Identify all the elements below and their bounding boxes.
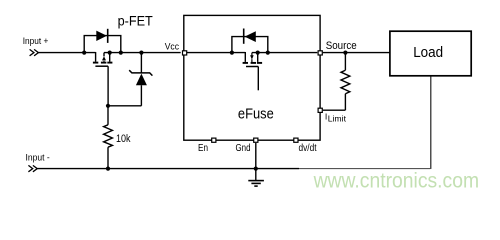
svg-text:Input -: Input -: [26, 152, 50, 162]
pin Vcc: [183, 51, 187, 55]
diode D3 body diode of Q2: [232, 29, 268, 53]
svg-text:Limit: Limit: [328, 113, 347, 123]
block Load: [390, 31, 471, 76]
svg-text:eFuse: eFuse: [238, 107, 274, 123]
wire Gnd pin to rail: [255, 143, 257, 169]
junction dot: [108, 51, 112, 55]
resistor R2 ILIM setting: [323, 53, 350, 111]
svg-text:En: En: [198, 143, 208, 154]
pin dv/dt: [294, 138, 298, 142]
ground: [248, 169, 264, 187]
svg-text:Input +: Input +: [23, 36, 49, 46]
input terminal Input- chevrons: [28, 165, 37, 171]
wire zener anode to gate node: [108, 105, 141, 107]
junction dot R1 to rail: [106, 167, 110, 171]
wire Q2 gate stub: [257, 67, 259, 91]
Q1 body arrow: [102, 56, 106, 62]
pin ILIM: [318, 108, 322, 112]
input terminal Input+ chevrons: [30, 49, 39, 55]
svg-text:Gnd: Gnd: [236, 143, 251, 154]
wire rail to Load corner (gray): [299, 168, 430, 170]
junction dot: [256, 51, 260, 55]
junction dot Gnd rail: [254, 167, 258, 171]
svg-text:Load: Load: [413, 45, 443, 61]
transistor Q1 p-FET: [93, 52, 113, 66]
Q2 body arrow (points down): [250, 53, 254, 62]
wire Input+ to p-FET source: [38, 52, 95, 54]
junction dot ILIM resistor tap: [343, 51, 347, 55]
wire p-FET drain to Vcc pin: [104, 52, 181, 54]
zener diode D2: [129, 53, 152, 106]
IC U1 eFuse box: [184, 15, 320, 140]
diode D1 body diode of Q1: [84, 29, 121, 53]
wire Source pin to Load: [323, 52, 390, 54]
transistor Q2 internal FET: [243, 52, 263, 67]
pin En: [212, 138, 216, 142]
svg-text:Vcc: Vcc: [165, 42, 180, 52]
wire Q2 drain to Source pin: [252, 52, 317, 54]
wire Vcc pin to Q2: [187, 52, 246, 54]
junction dot: [230, 51, 234, 55]
junction dot: [82, 51, 86, 55]
wire Input- rail (black): [37, 168, 299, 170]
svg-text:Source: Source: [326, 40, 357, 52]
junction dot: [266, 51, 270, 55]
wire Load to rail drop: [430, 76, 432, 169]
svg-text:p-FET: p-FET: [118, 14, 153, 30]
pin Gnd: [254, 138, 258, 142]
svg-text:10k: 10k: [116, 133, 131, 145]
svg-text:www.cntronics.com: www.cntronics.com: [313, 170, 479, 193]
wire Q1 gate lead: [107, 66, 109, 106]
junction dot gate node: [106, 104, 110, 108]
resistor R1 10k: [104, 106, 113, 169]
pin Source: [318, 51, 322, 55]
junction dot zener tap: [139, 51, 143, 55]
svg-text:dv/dt: dv/dt: [299, 143, 317, 154]
junction dot: [119, 51, 123, 55]
